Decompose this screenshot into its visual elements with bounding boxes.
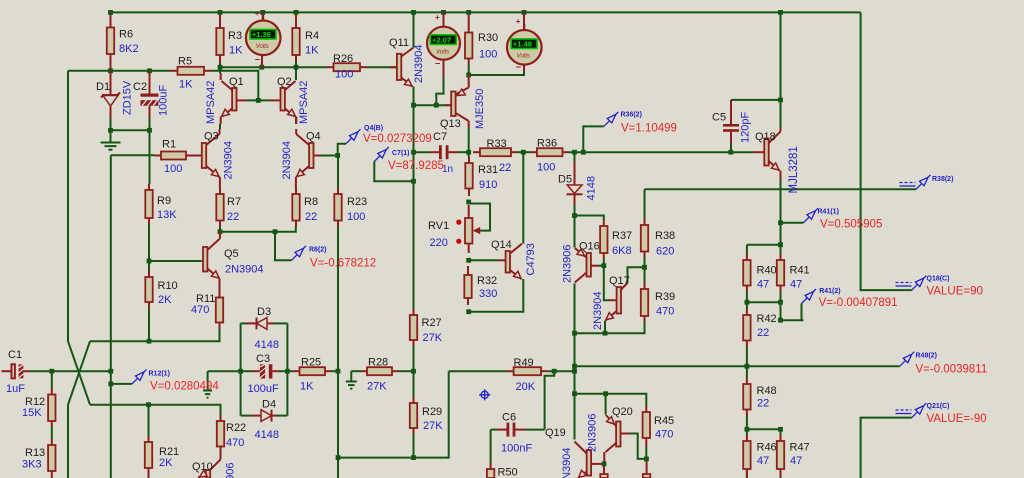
svg-text:R48(2): R48(2) <box>916 353 937 360</box>
node bottom rail <box>336 455 341 460</box>
svg-text:910: 910 <box>479 179 497 191</box>
svg-text:1K: 1K <box>229 45 243 57</box>
svg-text:−: − <box>516 62 521 72</box>
wire ground stem top-left <box>110 130 112 141</box>
wire R49 right <box>548 370 575 372</box>
svg-text:MPSA42: MPSA42 <box>298 81 310 124</box>
wire Q11 emitter vertical x=414 <box>413 87 415 310</box>
node driver rail <box>572 391 577 396</box>
svg-text:Q19: Q19 <box>545 427 566 439</box>
wire R41 bottom <box>780 292 782 321</box>
wire rail to C5 node and Q18 collector <box>780 12 782 127</box>
wire C5 top link <box>731 99 781 101</box>
svg-text:R22: R22 <box>226 422 246 434</box>
resistor R22 <box>217 415 246 452</box>
svg-text:27K: 27K <box>423 420 443 432</box>
svg-text:C3: C3 <box>256 353 270 365</box>
transistor Q13 MJE350 (PNP) <box>440 75 469 130</box>
svg-text:3K3: 3K3 <box>22 459 42 471</box>
wire to R12 <box>51 371 53 388</box>
svg-text:Q16: Q16 <box>579 241 600 253</box>
voltage probe C7(1) <box>374 147 444 172</box>
wire x=68 bottom <box>67 405 69 478</box>
node R6 bottom <box>108 68 113 73</box>
node D5 bottom <box>572 213 577 218</box>
wire Q14 emitter to R32 <box>469 279 524 312</box>
node rail R42 <box>745 364 750 369</box>
resistor R48 <box>743 378 776 416</box>
node R21 node <box>146 402 151 407</box>
wire Q20 base to R45 bottom <box>630 434 646 459</box>
node Q19 base <box>602 462 607 467</box>
node D5 top <box>572 150 577 155</box>
voltage probe Q21(C) VALUE=-90 <box>896 403 987 425</box>
svg-text:Q14: Q14 <box>491 239 512 251</box>
svg-text:V=-0.678212: V=-0.678212 <box>310 258 376 270</box>
resistor R25 <box>294 357 332 393</box>
svg-text:Q10: Q10 <box>192 461 213 473</box>
resistor R9 <box>145 184 177 224</box>
resistor R1 <box>155 139 202 176</box>
wire R25 to x=338 <box>331 370 338 372</box>
voltage probe R8(2) <box>292 246 377 270</box>
svg-text:R32: R32 <box>477 275 497 287</box>
transistor Q2 MPSA42 <box>270 76 296 124</box>
wire R10 bottom to NFB <box>148 308 150 341</box>
svg-text:C4793: C4793 <box>525 243 537 275</box>
node Q20 emitter <box>603 391 608 396</box>
node RV1 top <box>466 200 471 205</box>
svg-text:22: 22 <box>757 327 769 339</box>
svg-text:1K: 1K <box>300 381 314 393</box>
svg-text:R8: R8 <box>304 196 318 208</box>
svg-text:2N3904: 2N3904 <box>223 141 235 180</box>
svg-text:R8(2): R8(2) <box>309 247 327 254</box>
wire NFB rail y=341 <box>90 329 220 342</box>
wire R7 bottom stub <box>219 227 221 232</box>
wire Q16 base <box>598 265 604 267</box>
node R25 out <box>336 369 341 374</box>
svg-text:22: 22 <box>227 211 239 223</box>
svg-text:Q1: Q1 <box>229 76 244 88</box>
node rail R30 <box>466 10 471 15</box>
wire D5 top stub <box>574 152 576 162</box>
wire R47 top stub <box>780 429 782 435</box>
wire R41 top stub <box>780 245 782 254</box>
svg-text:R39: R39 <box>655 291 675 303</box>
wire probe R41(2) jog <box>801 304 803 321</box>
node C2 bottom <box>147 128 152 133</box>
svg-text:C5: C5 <box>712 112 726 124</box>
svg-text:2K: 2K <box>158 294 172 306</box>
diode D3 1N4148 <box>246 306 279 351</box>
svg-text:MJE350: MJE350 <box>474 89 486 129</box>
node Q14 base node <box>466 258 471 263</box>
svg-text:22: 22 <box>305 211 317 223</box>
node C1-R12 <box>49 369 54 374</box>
wire crossover diagonal B <box>68 341 90 405</box>
ground R28 <box>346 382 357 389</box>
resistor R32 <box>464 266 497 305</box>
resistor R21 <box>145 436 179 478</box>
wire VAS rail to Q18 base <box>568 151 754 153</box>
svg-text:47: 47 <box>790 279 802 291</box>
wire down to R21 <box>148 405 150 436</box>
node R49 out <box>552 369 557 374</box>
resistor R4 <box>292 12 319 61</box>
wire C3 right stub <box>279 370 287 372</box>
wire Q11 collector <box>413 12 415 47</box>
svg-text:2N3904: 2N3904 <box>413 44 425 83</box>
svg-text:C6: C6 <box>502 412 516 424</box>
node R28 right <box>411 369 416 374</box>
node R45 bottom <box>644 457 649 462</box>
wire Q14 base <box>469 259 498 261</box>
svg-text:R38: R38 <box>655 230 675 242</box>
wire Q16 collector down <box>574 284 576 334</box>
wire probe R12(1) tap <box>111 383 132 385</box>
transistor Q11 2N3904 <box>389 37 414 87</box>
wire Q17 base <box>604 266 609 301</box>
wire R26 to Q11 base <box>367 66 397 68</box>
wire to R25 <box>287 370 293 372</box>
node VM2 minus <box>434 103 439 108</box>
wire R38 top <box>644 189 646 219</box>
svg-text:4148: 4148 <box>255 429 279 441</box>
svg-text:27K: 27K <box>367 381 387 393</box>
wire R40bot-R41bot <box>747 301 781 303</box>
svg-text:Q5: Q5 <box>224 248 239 260</box>
wire bias bottom rail <box>575 322 645 333</box>
svg-text:V=87.9285: V=87.9285 <box>388 160 444 172</box>
wire C5 bottom stub <box>730 143 732 152</box>
svg-text:C7: C7 <box>433 131 447 143</box>
node line A R3 <box>218 65 223 70</box>
svg-text:R50: R50 <box>498 467 518 478</box>
wire probe R36(2) tap <box>583 126 604 152</box>
wire bottom right to Q21(C) probe <box>861 418 912 478</box>
wire R9 to R10 top <box>148 224 150 271</box>
svg-text:D5: D5 <box>558 174 572 186</box>
wire Q17 collector to R38/R39 <box>628 267 645 283</box>
resistor R31 <box>465 157 498 196</box>
svg-text:V=1.10499: V=1.10499 <box>621 123 677 135</box>
wire R48-R46 link <box>746 416 748 436</box>
node rail R3 <box>218 10 223 15</box>
wire probe Q4(B) tap <box>338 144 346 156</box>
node R12 probe <box>108 382 113 387</box>
resistor R46 <box>743 435 776 478</box>
transistor Q4 2N3904 (mirrored) <box>296 129 321 188</box>
node R41 bottom link <box>778 300 783 305</box>
svg-text:+1.48: +1.48 <box>513 39 532 48</box>
wire gnd to R28 <box>351 370 361 372</box>
node R41(1) <box>778 220 783 225</box>
svg-text:2N3906: 2N3906 <box>562 244 574 283</box>
svg-text:2N3906: 2N3906 <box>225 462 237 478</box>
wire C6 to R50 <box>490 430 492 463</box>
svg-text:8K2: 8K2 <box>119 43 139 55</box>
svg-text:1K: 1K <box>179 79 193 91</box>
wire R27-R29 link <box>413 346 415 397</box>
svg-text:2N3904: 2N3904 <box>281 141 293 180</box>
node box right <box>285 369 290 374</box>
resistor R27 <box>410 309 443 346</box>
transistor Q10 2N3906 (partial at bottom edge) <box>192 452 221 478</box>
svg-text:R31: R31 <box>478 164 498 176</box>
voltage probe Q18(C) VALUE=90 <box>896 276 983 298</box>
node rail R6 <box>108 10 113 15</box>
svg-text:100uF: 100uF <box>158 85 170 116</box>
voltage probe R48(2) <box>900 352 987 376</box>
potentiometer RV1 220 <box>428 204 490 254</box>
wire R37 bottom stub <box>603 259 605 266</box>
resistor R30 <box>465 12 498 64</box>
resistor R45 <box>643 406 675 447</box>
svg-text:100: 100 <box>537 162 555 174</box>
wire right rail to Q18(C) probe <box>861 12 912 290</box>
wire Q2e-Q4c <box>295 117 297 124</box>
svg-text:Q4: Q4 <box>306 131 321 143</box>
svg-text:Q18(C): Q18(C) <box>927 276 950 283</box>
svg-text:Q3: Q3 <box>204 131 219 143</box>
wire C1 to input node <box>30 370 111 372</box>
voltmeter VM3 <box>507 17 542 72</box>
voltmeter VM2 <box>427 13 460 69</box>
wire Q13 collector to node <box>468 128 470 157</box>
wire to C3 box <box>208 370 241 372</box>
svg-text:D4: D4 <box>262 399 276 411</box>
svg-text:620: 620 <box>656 246 674 258</box>
wire C7 left <box>414 151 431 153</box>
voltage probe R12(1) <box>132 369 219 392</box>
transistor Q18 MJL3281 <box>754 128 781 180</box>
capacitor C2 100uF electrolytic <box>133 71 159 118</box>
wire Q18 emitter down <box>780 179 782 245</box>
svg-text:−: − <box>435 59 440 69</box>
ground mid <box>203 391 212 398</box>
node R49-vert <box>572 369 577 374</box>
capacitor C3 100uF electrolytic <box>248 353 280 395</box>
origin marker <box>479 389 490 400</box>
wire C6 left <box>491 429 497 431</box>
svg-text:V=-0.0039811: V=-0.0039811 <box>916 364 988 376</box>
node Q5 base node <box>147 259 152 264</box>
svg-text:Volts: Volts <box>517 54 530 60</box>
svg-text:4148: 4148 <box>255 339 279 351</box>
wire C7 right to node <box>458 151 469 153</box>
node input <box>108 369 113 374</box>
svg-text:R45: R45 <box>654 415 674 427</box>
svg-text:R4: R4 <box>305 30 319 42</box>
wire line B left <box>68 70 170 72</box>
wire R42-R48 link <box>746 347 748 379</box>
wire probe R8(2) tap <box>275 232 292 261</box>
svg-text:R40: R40 <box>757 265 777 277</box>
svg-text:R25: R25 <box>301 357 321 369</box>
resistor R47 <box>777 435 810 478</box>
svg-text:Q17: Q17 <box>609 275 630 287</box>
svg-text:100uF: 100uF <box>248 383 279 395</box>
svg-text:R27: R27 <box>422 317 442 329</box>
wire rail y=405 to R22 <box>90 405 221 415</box>
resistor R42 <box>743 309 776 347</box>
wire probe R41(1) tap <box>781 222 804 224</box>
svg-text:+1.36: +1.36 <box>252 30 271 39</box>
resistor R7 <box>216 188 241 227</box>
node rail left <box>572 364 577 369</box>
wire V+ top rail <box>111 11 861 13</box>
wire R33-R36 junction <box>517 151 531 153</box>
node Q4 base <box>335 153 340 158</box>
wire R40/R41 header <box>747 244 781 246</box>
wire input to R1 <box>111 154 155 156</box>
wire crossover diagonal A <box>68 341 90 405</box>
node C5 bottom <box>728 150 733 155</box>
svg-text:22: 22 <box>499 162 511 174</box>
svg-text:R10: R10 <box>158 280 178 292</box>
svg-text:220: 220 <box>430 237 448 249</box>
svg-text:4148: 4148 <box>586 176 598 200</box>
wire R28 ground stem <box>350 371 352 380</box>
node R30 bottom <box>466 73 471 78</box>
wire Q2 collector to line A <box>295 61 297 80</box>
node rail Q11 <box>411 10 416 15</box>
svg-text:V=0.505905: V=0.505905 <box>820 219 882 231</box>
resistor R38 <box>641 219 675 258</box>
node Q16 base <box>601 263 606 268</box>
wire C3 left stub <box>241 370 252 372</box>
svg-text:MJL3281: MJL3281 <box>788 146 800 193</box>
svg-text:D1: D1 <box>96 81 110 93</box>
node NFB R10 <box>147 339 152 344</box>
wire to R23 top <box>337 156 339 189</box>
svg-text:+: + <box>516 17 521 26</box>
svg-text:−: − <box>255 55 260 65</box>
resistor R3 <box>216 12 243 62</box>
wire driver rail y=394 to R45 <box>575 394 647 406</box>
svg-text:27K: 27K <box>423 332 443 344</box>
resistor R33 <box>473 138 517 174</box>
resistor R10 <box>145 271 177 308</box>
svg-text:R7: R7 <box>227 196 241 208</box>
resistor R41 <box>777 254 810 292</box>
svg-text:R38(2): R38(2) <box>932 176 953 183</box>
wire R12-R13 link <box>51 427 53 439</box>
svg-text:R6: R6 <box>119 29 133 41</box>
node R36 probe <box>581 150 586 155</box>
svg-text:C2: C2 <box>133 81 147 93</box>
capacitor C6 100nF <box>497 412 532 455</box>
node R40R41 top <box>778 242 783 247</box>
node Q17 emitter <box>603 331 608 336</box>
wire C6 right <box>525 429 545 431</box>
voltage probe Q4(B) <box>346 125 432 145</box>
node bias left <box>572 331 577 336</box>
svg-text:2N3906: 2N3906 <box>587 413 599 452</box>
node R32 bottom <box>466 309 471 314</box>
wire Q5 base <box>149 260 202 262</box>
transistor Q5 2N3904 <box>203 232 264 292</box>
transistor Q19 2N3904 (mirrored) <box>545 427 602 478</box>
svg-text:20K: 20K <box>516 381 536 393</box>
voltage probe R41(1) <box>804 208 883 230</box>
wire D1 bottom <box>110 118 112 130</box>
node VM1 minus <box>259 65 264 70</box>
svg-text:R46: R46 <box>757 442 777 454</box>
svg-text:100: 100 <box>479 49 497 61</box>
node Q1Q2 bases <box>256 98 261 103</box>
svg-text:VALUE=-90: VALUE=-90 <box>927 413 987 425</box>
resistor R12 <box>22 389 56 428</box>
node rail VM3 <box>522 10 527 15</box>
svg-text:R26: R26 <box>333 53 353 65</box>
svg-text:Q13: Q13 <box>440 118 461 130</box>
wire input long vertical x=111 <box>110 155 112 478</box>
ground top-left <box>101 143 121 150</box>
svg-text:Q21(C): Q21(C) <box>927 403 950 410</box>
transistor Q14 C4793 <box>469 152 524 312</box>
wire Q4 base <box>314 155 338 157</box>
svg-text:R36(2): R36(2) <box>621 112 642 119</box>
transistor Q17 2N3904 <box>606 275 630 320</box>
transistor Q1 MPSA42 (mirrored, leads left) <box>221 73 247 124</box>
wire D5 bottom stub <box>574 205 576 216</box>
resistor R23 <box>334 188 367 227</box>
resistor RQ20B <box>643 461 650 478</box>
node tail probe <box>273 229 278 234</box>
wire rail-R49 link <box>574 366 576 371</box>
node R40 bottom <box>745 300 750 305</box>
svg-text:R41(2): R41(2) <box>819 288 840 295</box>
svg-text:R5: R5 <box>178 56 192 68</box>
svg-text:R12(1): R12(1) <box>149 371 170 378</box>
wire left drop x=68 <box>67 71 69 341</box>
node Q17 collector <box>642 265 647 270</box>
wire R40 top stub <box>746 245 748 254</box>
svg-text:C1: C1 <box>8 349 22 361</box>
svg-text:R13: R13 <box>25 447 45 459</box>
voltage probe R38(2) with dashes <box>900 175 954 190</box>
transistor Q20 2N3906 (PNP mirrored) <box>604 406 632 462</box>
resistor R5 <box>170 56 211 91</box>
wire R3 stub <box>219 63 221 74</box>
svg-text:C7(1): C7(1) <box>392 150 410 157</box>
resistor R13 <box>22 439 56 478</box>
svg-text:R42: R42 <box>757 313 777 325</box>
wire D4 right stub <box>276 415 287 417</box>
svg-text:100: 100 <box>347 211 365 223</box>
svg-text:R41(1): R41(1) <box>818 209 839 216</box>
svg-text:120pF: 120pF <box>740 112 752 143</box>
voltage probe R41(2) <box>802 288 898 309</box>
node C7 probe <box>411 179 416 184</box>
svg-text:330: 330 <box>479 288 497 300</box>
svg-text:ZD15V: ZD15V <box>122 80 134 115</box>
svg-text:1K: 1K <box>305 45 319 57</box>
wire D3 right stub <box>273 322 287 324</box>
node rail right <box>778 10 783 15</box>
svg-text:Q11: Q11 <box>389 37 409 49</box>
capacitor C1 1uF electrolytic <box>2 349 31 395</box>
node C5 top <box>778 98 783 103</box>
wire R38-R39 link <box>644 258 646 284</box>
wire voltmeter2 minus jog <box>436 77 443 105</box>
wire output rail y=366 <box>575 365 900 367</box>
wire probe C7(1) tap <box>374 162 413 182</box>
svg-text:+2.07: +2.07 <box>432 35 451 44</box>
node R29 bottom <box>411 455 416 460</box>
